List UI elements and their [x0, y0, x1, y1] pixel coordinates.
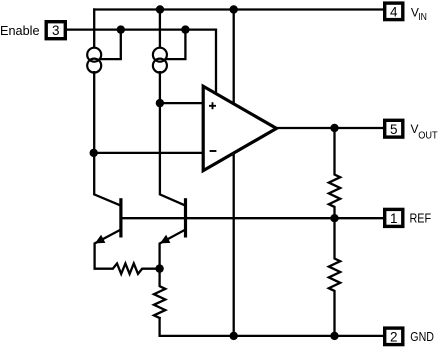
svg-text:OUT: OUT [418, 130, 438, 142]
svg-text:1: 1 [390, 211, 398, 226]
svg-text:4: 4 [390, 4, 398, 19]
svg-text:IN: IN [418, 12, 427, 23]
svg-text:3: 3 [52, 23, 60, 38]
svg-text:2: 2 [390, 330, 398, 345]
svg-text:GND: GND [410, 329, 434, 344]
svg-text:REF: REF [410, 210, 432, 225]
svg-text:5: 5 [390, 122, 398, 137]
svg-text:Enable: Enable [0, 23, 40, 38]
